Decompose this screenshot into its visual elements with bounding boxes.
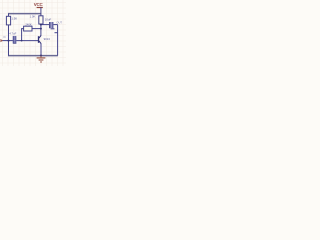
svg-text:IN: IN [3, 36, 6, 39]
svg-text:4.7uF: 4.7uF [9, 31, 16, 35]
svg-text:OUT: OUT [56, 20, 62, 24]
svg-text:10uF: 10uF [45, 17, 52, 21]
svg-text:9013: 9013 [44, 37, 51, 41]
svg-text:240K: 240K [25, 22, 31, 26]
svg-text:VCC: VCC [34, 2, 44, 7]
svg-text:1.0K: 1.0K [30, 14, 36, 18]
svg-text:1.5K: 1.5K [11, 17, 17, 21]
